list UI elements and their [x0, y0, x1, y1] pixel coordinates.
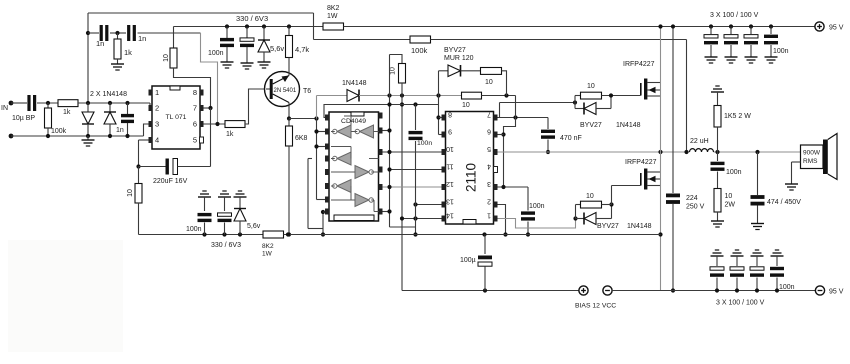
ground above 100n — [198, 196, 211, 198]
node — [671, 24, 675, 28]
pin CD4049 right — [379, 149, 383, 155]
wire — [461, 70, 481, 72]
pin 6 TL071 — [200, 121, 204, 127]
wire — [226, 27, 228, 39]
wire — [736, 278, 738, 291]
svg-text:2: 2 — [487, 198, 491, 205]
wire gate riser — [611, 186, 613, 205]
svg-text:BYV27: BYV27 — [597, 223, 619, 230]
node — [436, 93, 440, 97]
wire — [776, 256, 778, 266]
node — [709, 24, 713, 28]
svg-text:4: 4 — [155, 136, 159, 145]
pin 13 2110 — [442, 202, 446, 208]
svg-text:5: 5 — [487, 145, 491, 152]
svg-text:1W: 1W — [327, 13, 338, 20]
wire source tap — [647, 89, 660, 91]
wire 100k feedback line right — [431, 39, 687, 41]
pin 6 2110 — [494, 132, 498, 138]
node — [658, 150, 662, 154]
svg-text:330 / 6V3: 330 / 6V3 — [211, 242, 241, 249]
resistor 1k input series — [58, 100, 78, 107]
diode 1N4148 D1 (down) — [87, 103, 89, 112]
wire — [716, 256, 718, 266]
ground below cap — [241, 62, 254, 64]
wire top link from input caps to 100k line — [88, 12, 314, 14]
node — [314, 116, 318, 120]
node — [86, 101, 90, 105]
resistor 8K2 1W (bottom) — [263, 231, 284, 238]
resistor 4,7k — [286, 36, 293, 58]
node — [658, 232, 662, 236]
wire — [204, 223, 206, 235]
node — [775, 288, 779, 292]
pin 12 2110 — [442, 184, 446, 190]
node — [46, 134, 50, 138]
capacitor 100n (neg) — [770, 267, 784, 270]
wire — [138, 140, 140, 167]
node — [715, 288, 719, 292]
node — [125, 134, 129, 138]
svg-text:TL 071: TL 071 — [166, 114, 187, 121]
wire — [204, 197, 206, 211]
wire — [776, 278, 778, 291]
node — [245, 24, 249, 28]
wire — [717, 172, 719, 189]
svg-text:1N4148: 1N4148 — [616, 122, 641, 129]
diode BYV27 (low side) — [583, 213, 585, 225]
svg-text:2 X 1N4148: 2 X 1N4148 — [90, 91, 127, 98]
wire — [716, 278, 718, 291]
op-amp U1 TL 071 — [152, 86, 200, 149]
wire collector down — [288, 103, 290, 119]
svg-text:1n: 1n — [96, 39, 104, 48]
node — [413, 232, 417, 236]
wire bottom rail left — [139, 234, 264, 236]
pin 9 2110 — [442, 132, 446, 138]
pin CD4049 left — [325, 144, 329, 150]
wire vertical drop to 100k line — [313, 13, 315, 40]
pin 2 TL071 — [149, 105, 153, 111]
node — [46, 101, 50, 105]
svg-text:220uF 16V: 220uF 16V — [153, 178, 188, 185]
capacitor 470 nF bootstrap — [547, 118, 549, 130]
wire stub — [308, 158, 312, 160]
inverter gate A — [337, 125, 351, 138]
terminal -95V — [815, 286, 824, 295]
pin CD4049 left — [325, 209, 329, 215]
node — [287, 232, 291, 236]
capacitor 474/450V output — [757, 152, 759, 195]
wire — [226, 47, 228, 62]
ground below 100n — [221, 61, 234, 63]
wire — [47, 128, 49, 136]
wire 6K8 to bottom rail — [288, 146, 290, 235]
wire — [757, 206, 759, 224]
wire 1N4148 anode — [317, 95, 348, 97]
wire — [482, 95, 516, 97]
wire to 2110 pin12 — [383, 186, 442, 188]
node — [262, 24, 266, 28]
wire to 2110 pin11 — [390, 169, 442, 171]
capacitor 1n (first coupling cap) — [100, 25, 103, 41]
node — [222, 232, 226, 236]
svg-text:10: 10 — [725, 193, 733, 200]
diode 1N4148 D2 (up) — [109, 103, 111, 112]
wire 10ohm to TL071 pin7 — [174, 68, 211, 108]
terminal BIAS + — [579, 286, 588, 295]
wire jog to pin2 — [149, 103, 151, 107]
pin 2 2110 — [494, 202, 498, 208]
capacitor 10u BP input — [27, 95, 30, 111]
high-side gate RC: resistor 10 + diode BYV27 — [575, 95, 581, 97]
wire pin3 — [498, 186, 529, 188]
node — [413, 216, 417, 220]
node — [413, 202, 417, 206]
wire diode line y95 — [359, 95, 462, 97]
node — [286, 232, 290, 236]
ground — [765, 56, 778, 58]
wire — [239, 221, 241, 235]
wire speaker return — [792, 161, 801, 163]
node — [483, 288, 487, 292]
svg-text:IRFP4227: IRFP4227 — [625, 159, 657, 166]
wire bias rail left — [402, 290, 579, 292]
resistor 10 (vertical, HIN line) — [399, 64, 406, 84]
node — [321, 232, 325, 236]
capacitor 100uF/100V — [744, 35, 758, 38]
wire — [263, 52, 265, 62]
svg-text:CD4049: CD4049 — [341, 118, 366, 125]
node — [546, 150, 550, 154]
svg-text:3 X 100 / 100 V: 3 X 100 / 100 V — [710, 12, 759, 19]
wire — [756, 278, 758, 291]
inverter gate C — [337, 152, 351, 165]
node — [202, 232, 206, 236]
svg-text:100n: 100n — [773, 48, 789, 55]
wire output node line — [498, 151, 690, 153]
ground — [745, 56, 758, 58]
wire stub right pin bottom — [383, 211, 390, 213]
node T6 collector — [287, 116, 291, 120]
resistor 100k input — [45, 108, 52, 128]
capacitor 100n (bottom) — [198, 213, 212, 216]
svg-text:10: 10 — [163, 54, 170, 62]
ground — [751, 223, 764, 225]
node — [735, 288, 739, 292]
wire input bottom bus — [11, 135, 144, 137]
ground input — [82, 139, 95, 141]
node — [503, 232, 507, 236]
svg-text:900W: 900W — [803, 150, 821, 157]
wire vertical x=88 from top link down to input bus — [87, 13, 89, 103]
node — [387, 209, 391, 213]
wire top of 10 ohm network — [390, 55, 403, 64]
wire — [730, 27, 732, 35]
pin 7 2110 — [494, 115, 498, 121]
wire pin7 HO/VB — [498, 117, 549, 119]
node feedback tap — [215, 122, 219, 126]
svg-text:BYV27: BYV27 — [444, 47, 466, 54]
ground — [725, 56, 738, 58]
node — [749, 24, 753, 28]
node — [482, 232, 486, 236]
svg-text:10: 10 — [390, 67, 397, 75]
wire to T6 emitter — [288, 58, 290, 72]
wire 100k feedback line left — [314, 39, 411, 41]
wire — [246, 47, 248, 63]
wire +95V top rail — [344, 26, 816, 28]
node — [387, 102, 391, 106]
svg-text:100n: 100n — [529, 203, 545, 210]
wire — [710, 27, 712, 35]
wire — [224, 197, 226, 211]
pin CD4049 right — [379, 209, 383, 215]
capacitor 1n (second coupling cap) — [127, 25, 130, 41]
node — [400, 102, 404, 106]
wire half-bridge bus x660 — [660, 27, 662, 291]
svg-text:10µ BP: 10µ BP — [12, 115, 35, 122]
wire to 2110 pin13 — [416, 204, 442, 206]
svg-text:10: 10 — [587, 83, 595, 90]
capacitor 100n (Vdd filter) — [409, 131, 423, 134]
wire pin8 stub — [439, 117, 442, 119]
wire high-side gate feed — [500, 102, 576, 104]
wire — [239, 197, 241, 209]
IC U2 CD4049 hex inverter — [329, 112, 379, 221]
wire — [527, 187, 529, 211]
wire stub — [317, 146, 326, 148]
resistor 10 (boost) — [481, 68, 502, 75]
resistor 1K5 2W — [714, 106, 721, 128]
diode BYV27 / MUR 120 — [448, 65, 461, 77]
svg-text:330 / 6V3: 330 / 6V3 — [236, 14, 268, 23]
speaker 900W RMS — [801, 145, 824, 169]
svg-text:250 V: 250 V — [686, 204, 705, 211]
wire input bus to pin2 — [78, 102, 150, 104]
node — [769, 24, 773, 28]
ground above cap — [711, 255, 724, 257]
node — [125, 101, 129, 105]
wire collector to CD4049 inputs — [289, 118, 317, 120]
resistor 10 2W zobel — [714, 189, 721, 213]
wire to output node — [717, 127, 719, 161]
pin CD4049 right — [379, 113, 383, 119]
node — [658, 24, 662, 28]
wire — [88, 32, 99, 34]
wire pin1 LO to gate network — [498, 219, 576, 229]
pin 8 2110 — [442, 115, 446, 121]
svg-text:10: 10 — [462, 102, 470, 109]
capacitor 100n (Vcc) — [521, 211, 535, 214]
svg-text:4: 4 — [487, 163, 491, 170]
svg-text:10: 10 — [586, 193, 594, 200]
node — [387, 167, 391, 171]
svg-text:1k: 1k — [63, 109, 71, 116]
pin 10 2110 — [442, 149, 446, 155]
pin 3 TL071 — [149, 121, 153, 127]
terminal +95V — [815, 22, 824, 31]
resistor 1k (pin6 to T6 base) — [225, 121, 245, 128]
wire output to speaker — [714, 151, 801, 153]
capacitor 224 250V (bus) — [666, 194, 680, 198]
node — [715, 150, 719, 154]
pin 14 2110 — [442, 216, 446, 222]
ground below 1k — [111, 63, 124, 65]
wire to boost diode — [439, 70, 449, 72]
resistor 6K8 — [286, 126, 293, 146]
wire vertical x438 to pins 8/9 — [438, 71, 440, 135]
wire bus cap x673 lower — [672, 204, 674, 291]
node — [609, 202, 613, 206]
node — [108, 134, 112, 138]
wire — [717, 92, 719, 106]
wire riser to gate line — [499, 103, 501, 118]
pin 11 2110 — [442, 167, 446, 173]
node junction 1k tap — [115, 31, 119, 35]
capacitor 100n HF — [764, 35, 778, 38]
wire — [37, 102, 58, 104]
node — [400, 93, 404, 97]
svg-text:100k: 100k — [51, 128, 67, 135]
wire vertical x389 — [389, 55, 391, 228]
wire pin9 stub — [439, 134, 442, 136]
ground zobel — [711, 220, 724, 222]
wire — [750, 27, 752, 35]
svg-text:3: 3 — [487, 180, 491, 187]
svg-text:2N 5401: 2N 5401 — [274, 88, 297, 94]
svg-text:MUR 120: MUR 120 — [444, 55, 474, 62]
node — [513, 115, 517, 119]
ground above cap — [731, 255, 744, 257]
terminal IN+ — [9, 101, 14, 106]
svg-text:100n: 100n — [726, 169, 742, 176]
svg-text:474 / 450V: 474 / 450V — [767, 199, 801, 206]
wire rail drop to 10 ohm — [173, 27, 175, 49]
svg-text:2: 2 — [155, 104, 159, 113]
wire — [288, 27, 290, 36]
pin 8 TL071 — [200, 90, 204, 96]
svg-text:95 V: 95 V — [829, 289, 844, 296]
node — [501, 185, 505, 189]
wire — [138, 167, 140, 184]
wire — [770, 45, 772, 57]
wire 1k to T6 base — [245, 89, 266, 124]
node — [729, 24, 733, 28]
node pin6 — [501, 132, 505, 136]
zener diode 5,6v (top) — [258, 39, 270, 41]
node — [684, 150, 688, 154]
svg-text:7: 7 — [487, 111, 491, 118]
capacitor electrolytic (rail decoupling) — [240, 38, 254, 41]
svg-text:8: 8 — [193, 88, 197, 97]
ground — [705, 56, 718, 58]
wire pin7-area routing — [504, 96, 516, 188]
node 4.7k tap — [287, 24, 291, 28]
wire source tap — [647, 178, 660, 180]
wire down to 220uF — [210, 108, 212, 167]
svg-text:6K8: 6K8 — [295, 135, 308, 142]
svg-text:6: 6 — [193, 120, 197, 129]
pin 3 2110 — [494, 184, 498, 190]
wire drain — [647, 171, 660, 173]
wire — [756, 256, 758, 266]
wire from cap to feedback path — [138, 32, 201, 34]
capacitor 100uF/100V (neg) — [730, 267, 744, 270]
node — [755, 150, 759, 154]
svg-text:3: 3 — [155, 120, 159, 129]
wire corner to 100n leg — [390, 226, 416, 228]
pin CD4049 right — [379, 184, 383, 190]
resistor 10 (below pin4) — [135, 184, 142, 204]
ground speaker — [785, 183, 798, 185]
wire gate — [612, 185, 641, 187]
svg-text:7: 7 — [193, 104, 197, 113]
wire pin6 stub — [498, 134, 504, 136]
pin CD4049 left — [325, 183, 329, 189]
IC U3 IR2110 gate driver — [446, 112, 494, 225]
svg-text:5,6v: 5,6v — [270, 44, 284, 53]
capacitor 220uF 16V — [139, 166, 166, 168]
resistor 10 (LIN line) — [462, 92, 482, 99]
svg-text:100n: 100n — [186, 226, 202, 233]
wire TL071 pin3 to bottom bus — [144, 124, 151, 136]
wire to bottom rail — [138, 203, 140, 235]
pin 4 TL071 — [149, 137, 153, 143]
wire emitter to 4,7k — [288, 72, 290, 76]
svg-text:5: 5 — [193, 136, 197, 145]
svg-text:1: 1 — [155, 88, 159, 97]
node — [314, 129, 318, 133]
pin CD4049 left — [325, 169, 329, 175]
svg-text:1W: 1W — [262, 251, 273, 258]
CD4049 internal routing — [331, 131, 335, 133]
svg-text:10: 10 — [127, 189, 134, 197]
node — [86, 134, 90, 138]
svg-text:1: 1 — [487, 212, 491, 219]
svg-text:6: 6 — [487, 128, 491, 135]
wire stub right pin — [383, 130, 390, 132]
svg-text:224: 224 — [686, 195, 698, 202]
transistor Q T6 2N 5401 — [265, 72, 300, 107]
wire 330/6V3 rail — [174, 26, 324, 28]
wire — [117, 33, 119, 39]
wire pin4 — [139, 139, 149, 141]
wire — [527, 222, 529, 235]
wire — [415, 105, 417, 131]
pin 5 2110 — [494, 149, 498, 155]
wire stub — [323, 211, 325, 213]
ground above 1K5 — [711, 91, 724, 93]
wire — [288, 119, 290, 127]
wire bottom rail right — [284, 234, 661, 236]
node — [387, 150, 391, 154]
node — [573, 100, 577, 104]
wire boost to y95 line — [502, 71, 507, 96]
node — [573, 216, 577, 220]
zener diode 5,6v (bottom) — [234, 208, 246, 210]
capacitor 100n (rail decoupling) — [220, 38, 234, 41]
node — [504, 93, 508, 97]
svg-text:13: 13 — [446, 198, 454, 205]
inverter gate D — [355, 166, 369, 179]
node — [387, 185, 391, 189]
wire — [791, 162, 793, 184]
svg-text:14: 14 — [446, 212, 454, 219]
svg-text:4,7k: 4,7k — [295, 45, 309, 54]
svg-text:100n: 100n — [208, 50, 224, 57]
svg-text:100n: 100n — [779, 284, 795, 291]
